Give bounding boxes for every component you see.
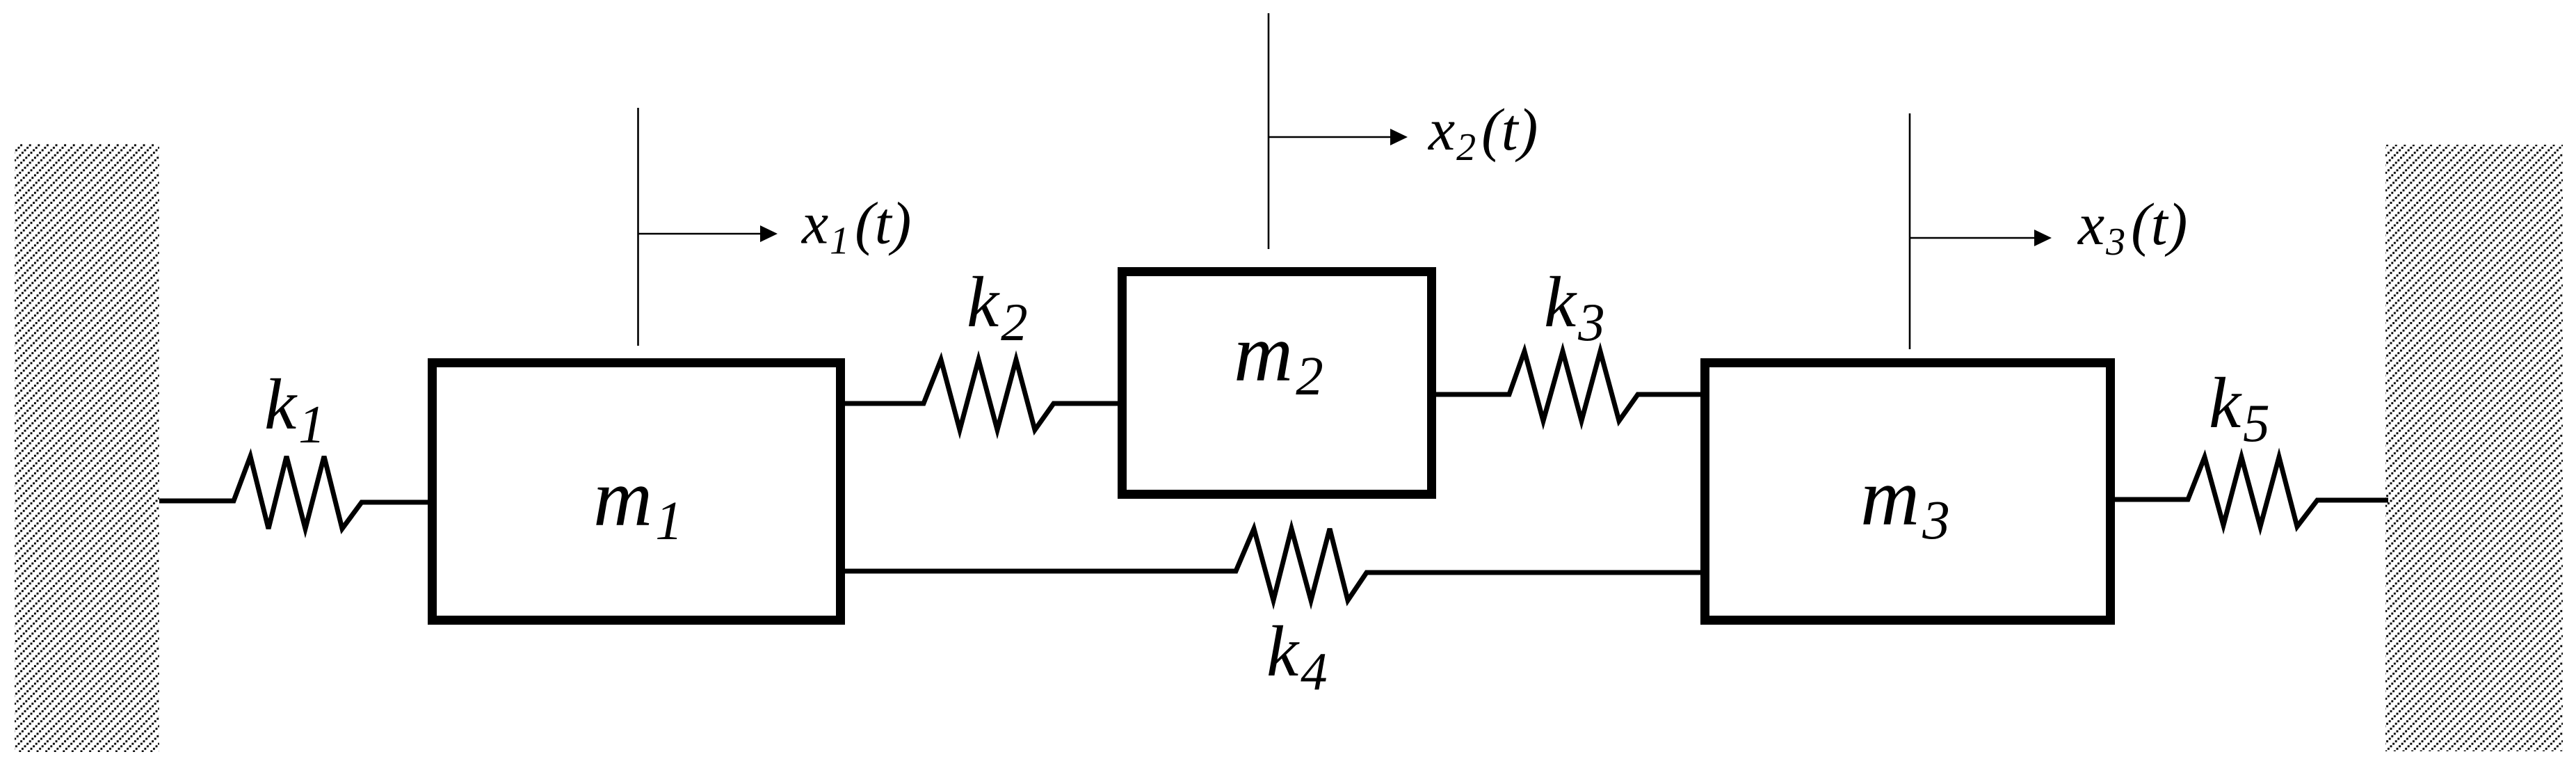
svg-text:x1(t): x1(t) xyxy=(800,190,911,263)
svg-text:x3(t): x3(t) xyxy=(2077,191,2187,264)
svg-text:x2(t): x2(t) xyxy=(1427,96,1538,169)
